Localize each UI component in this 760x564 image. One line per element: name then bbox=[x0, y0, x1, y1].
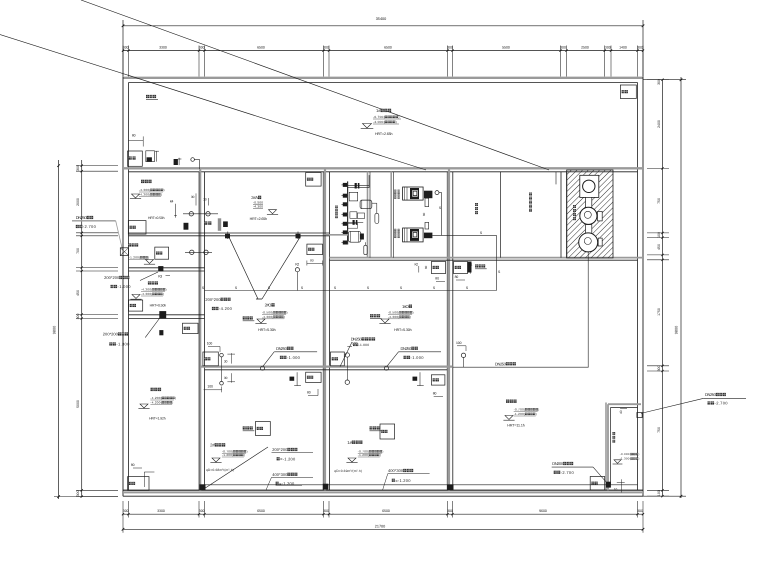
svg-text:-1.300: -1.300 bbox=[116, 342, 130, 347]
svg-text:-4.200: -4.200 bbox=[219, 306, 233, 311]
water level grit chamber bbox=[132, 194, 140, 198]
svg-text:): ) bbox=[380, 453, 381, 457]
sluice below H5 bbox=[159, 330, 163, 335]
svg-text:): ) bbox=[246, 450, 247, 454]
inlet label top left bbox=[146, 95, 149, 98]
svg-text:100: 100 bbox=[352, 342, 358, 346]
svg-text:750: 750 bbox=[657, 198, 661, 204]
svg-text:): ) bbox=[410, 315, 411, 319]
svg-text:-1.300(: -1.300( bbox=[620, 457, 631, 461]
svg-text:80: 80 bbox=[435, 277, 439, 281]
room label disinfection vertical bbox=[612, 432, 615, 435]
svg-text:1400: 1400 bbox=[619, 45, 627, 49]
svg-text:9800: 9800 bbox=[53, 326, 57, 334]
left overall dim extension bbox=[54, 496, 118, 498]
svg-text:300: 300 bbox=[323, 509, 329, 513]
right overall dimension line 9800 bbox=[680, 77, 682, 498]
pump coupling 2 bbox=[425, 222, 429, 229]
svg-text:2#O: 2#O bbox=[265, 303, 273, 308]
svg-text:80: 80 bbox=[422, 212, 426, 216]
svg-text:DN250: DN250 bbox=[76, 215, 88, 220]
valve circle pair metering bbox=[185, 251, 212, 253]
svg-text:450: 450 bbox=[657, 244, 661, 250]
sluice gate on H3 right bbox=[296, 234, 301, 239]
svg-text:6500: 6500 bbox=[384, 45, 392, 49]
svg-text:=-1.200: =-1.200 bbox=[280, 456, 296, 461]
svg-text:300: 300 bbox=[76, 491, 80, 497]
valve manifold vertical pipe 1#A bbox=[347, 181, 349, 244]
svg-text:700: 700 bbox=[76, 248, 80, 254]
svg-text:-4.000(: -4.000( bbox=[373, 120, 386, 124]
svg-text:HRT=2.65h: HRT=2.65h bbox=[250, 217, 268, 221]
svg-text:): ) bbox=[396, 120, 397, 124]
gate valve circle and L pipe bbox=[191, 158, 195, 162]
sluice gate on H3 left bbox=[225, 234, 230, 239]
svg-text:300: 300 bbox=[637, 509, 643, 513]
small gate component bbox=[174, 159, 178, 165]
sluice gate on wall H5 bbox=[159, 311, 166, 319]
svg-text:): ) bbox=[536, 412, 537, 416]
right segmented dimension line bbox=[662, 80, 664, 497]
manifold valve rects middle bbox=[350, 212, 357, 219]
left segmented dimension line bbox=[81, 160, 83, 497]
svg-text:-1.200(: -1.200( bbox=[129, 256, 140, 260]
svg-text:): ) bbox=[398, 115, 399, 119]
svg-text:-4.300(: -4.300( bbox=[141, 292, 152, 296]
svg-text:): ) bbox=[244, 453, 245, 457]
manhole top right bbox=[620, 85, 636, 99]
valve circles on wall V2 at A pool bbox=[183, 213, 218, 215]
svg-text:300: 300 bbox=[560, 45, 566, 49]
drain valve circles through H6 left bbox=[220, 353, 224, 357]
svg-text:-2.700: -2.700 bbox=[561, 470, 575, 475]
pump discharge piping bbox=[435, 191, 439, 195]
svg-text:80: 80 bbox=[131, 463, 135, 467]
wall H7 under pump room and right rooms bbox=[330, 257, 644, 259]
svg-text:-1.000: -1.000 bbox=[411, 355, 425, 360]
svg-text:HRT=5.30h: HRT=5.30h bbox=[394, 328, 412, 332]
room label regulating pool bbox=[506, 400, 509, 403]
svg-text:30: 30 bbox=[224, 360, 228, 364]
svg-text:450: 450 bbox=[76, 290, 80, 296]
drain valve circles through H6 right bbox=[345, 353, 349, 357]
svg-text:2#: 2# bbox=[210, 443, 215, 448]
room label sludge storage vertical bbox=[475, 203, 478, 206]
manhole 2#A bottom left bbox=[204, 221, 207, 224]
svg-text:30: 30 bbox=[191, 195, 195, 199]
svg-text:-1.200(: -1.200( bbox=[222, 453, 233, 457]
room label sludge thickener vertical bbox=[529, 193, 532, 196]
interior trough line above bottom wall bbox=[205, 484, 638, 486]
svg-text:1#: 1# bbox=[347, 440, 352, 445]
top dimension extension line right bbox=[642, 20, 644, 77]
svg-text:21700: 21700 bbox=[375, 524, 386, 528]
gate component 2# clarifier bbox=[290, 377, 295, 381]
svg-text:): ) bbox=[287, 311, 288, 315]
svg-text:100: 100 bbox=[207, 384, 213, 388]
gate component 1# clarifier bbox=[413, 377, 418, 381]
manhole regulating pool bbox=[454, 262, 468, 274]
manhole disinfection bbox=[590, 477, 605, 491]
svg-text:300: 300 bbox=[199, 45, 205, 49]
wall H5 left regulating pool bottom bbox=[129, 314, 205, 316]
svg-text:400*300: 400*300 bbox=[272, 472, 288, 477]
manifold bottom capsule bbox=[365, 242, 367, 245]
svg-text:1#: 1# bbox=[376, 108, 381, 113]
svg-text:-1.000: -1.000 bbox=[359, 343, 370, 347]
water level symbol collecting well bbox=[363, 124, 372, 129]
svg-text:): ) bbox=[175, 396, 176, 400]
svg-text:HRT=5.30h: HRT=5.30h bbox=[258, 328, 276, 332]
svg-text:40: 40 bbox=[619, 410, 623, 414]
svg-text:): ) bbox=[164, 188, 165, 192]
room label vertical pump room bbox=[335, 206, 338, 209]
room label grit chamber bbox=[141, 180, 144, 183]
svg-text:DN200: DN200 bbox=[552, 461, 564, 466]
svg-text:200*200: 200*200 bbox=[272, 447, 288, 452]
svg-text:300: 300 bbox=[123, 45, 129, 49]
svg-text:): ) bbox=[161, 193, 162, 197]
blower unit middle bbox=[586, 197, 592, 207]
svg-text:3300: 3300 bbox=[157, 509, 165, 513]
svg-text:): ) bbox=[538, 408, 539, 412]
svg-text:300: 300 bbox=[447, 509, 453, 513]
room label metering well bbox=[128, 243, 131, 246]
manhole sludge storage bottom bbox=[128, 477, 149, 491]
svg-text:200*200: 200*200 bbox=[103, 332, 119, 337]
pump 2 flange bbox=[424, 233, 432, 239]
svg-text:qD=0.69m³/(m²·h): qD=0.69m³/(m²·h) bbox=[334, 469, 362, 473]
svg-text:K2: K2 bbox=[415, 263, 419, 267]
svg-text:9800: 9800 bbox=[675, 326, 679, 334]
wall H6 under O pools bbox=[200, 366, 453, 368]
svg-text:35400: 35400 bbox=[376, 17, 387, 21]
svg-text:30: 30 bbox=[203, 197, 207, 201]
outlet label and manhole 1#clarifier bbox=[370, 426, 373, 429]
hopper slope line 2# clarifier bbox=[203, 447, 268, 490]
gray pipe from 2#O pool bbox=[326, 234, 348, 236]
svg-text:DN250: DN250 bbox=[276, 346, 288, 351]
svg-text:100: 100 bbox=[456, 341, 462, 345]
svg-text:DN250: DN250 bbox=[495, 361, 507, 366]
svg-text:-4.200(: -4.200( bbox=[150, 401, 161, 405]
diagonal leader line 2 bbox=[0, 35, 426, 171]
svg-text:3300: 3300 bbox=[159, 45, 167, 49]
room label sludge storage bbox=[151, 388, 154, 391]
svg-text:9600: 9600 bbox=[539, 509, 547, 513]
pump unit 1 bbox=[403, 187, 424, 200]
blower room left wall bbox=[560, 172, 562, 258]
svg-text:2400: 2400 bbox=[657, 120, 661, 128]
svg-text:-4.300(: -4.300( bbox=[388, 315, 399, 319]
svg-text:=-1.200: =-1.200 bbox=[395, 478, 411, 483]
svg-text:): ) bbox=[284, 315, 285, 319]
blower unit bottom bbox=[579, 233, 598, 252]
pipe line with S marks bbox=[205, 290, 497, 292]
svg-text:200*200: 200*200 bbox=[205, 297, 221, 302]
svg-text:1750: 1750 bbox=[657, 308, 661, 316]
manifold top horizontal pipes bbox=[348, 184, 370, 186]
svg-text:400*300: 400*300 bbox=[388, 468, 404, 473]
pipe wall sleeve symbol bbox=[120, 248, 128, 256]
hopper V lines 2#O pool bbox=[229, 236, 258, 299]
svg-text:300: 300 bbox=[76, 314, 80, 320]
exterior wall bottom bbox=[123, 489, 643, 491]
svg-text:): ) bbox=[413, 311, 414, 315]
svg-text:): ) bbox=[382, 450, 383, 454]
svg-text:2#A: 2#A bbox=[251, 195, 258, 200]
svg-text:qD=0.68m³/(m²·h): qD=0.68m³/(m²·h) bbox=[206, 468, 234, 472]
manhole 2#O bottom bbox=[203, 352, 218, 366]
manhole 2#A pool bbox=[306, 173, 321, 187]
svg-text:-1.000: -1.000 bbox=[287, 355, 301, 360]
sluice gate on wall H4 bbox=[158, 266, 163, 271]
svg-text:HRT=0.50h: HRT=0.50h bbox=[150, 304, 167, 308]
exterior wall left bbox=[122, 77, 124, 496]
top segmented dimension line bbox=[123, 50, 643, 52]
wall V2 vertical divider bbox=[199, 168, 201, 490]
svg-text:80: 80 bbox=[132, 133, 136, 137]
blower room hatched floor bbox=[567, 170, 613, 258]
svg-text:30: 30 bbox=[224, 376, 228, 380]
air pipe from blowers bbox=[587, 252, 589, 367]
leader end stub bbox=[555, 172, 557, 185]
svg-text:HRT=2.65h: HRT=2.65h bbox=[375, 132, 393, 136]
svg-text:): ) bbox=[638, 457, 639, 461]
svg-text:300: 300 bbox=[657, 366, 661, 372]
outlet label 1#O bbox=[370, 314, 373, 317]
wall H2 full width bbox=[123, 167, 643, 169]
svg-text:300: 300 bbox=[323, 45, 329, 49]
room label blower room vertical bbox=[573, 205, 576, 208]
manifold branch box bbox=[349, 192, 358, 201]
top overall dimension line 27100 bbox=[123, 25, 643, 27]
svg-text:-0.000(: -0.000( bbox=[620, 452, 631, 456]
svg-text:-4.300(: -4.300( bbox=[139, 188, 150, 192]
manhole 1# clarifier top bbox=[431, 375, 445, 385]
svg-text:300: 300 bbox=[605, 45, 611, 49]
svg-text:K4: K4 bbox=[170, 200, 174, 204]
svg-text:2500: 2500 bbox=[581, 45, 589, 49]
outlet label and manhole 2#clarifier bbox=[243, 426, 246, 429]
svg-text:-4.200(: -4.200( bbox=[150, 396, 161, 400]
svg-text:100: 100 bbox=[207, 342, 213, 346]
svg-text:-1.000: -1.000 bbox=[118, 284, 132, 289]
svg-text:80: 80 bbox=[455, 275, 459, 279]
svg-text:=-1.200: =-1.200 bbox=[279, 481, 295, 486]
wall H3 under grit chamber and 2#A pool bbox=[129, 232, 330, 234]
sludge room divider bbox=[499, 172, 501, 258]
svg-text:-4.300(: -4.300( bbox=[139, 193, 150, 197]
vertical pipe joining S line bbox=[496, 235, 498, 290]
valve stem T bbox=[156, 151, 158, 162]
outlet label 2#O bbox=[243, 316, 246, 319]
svg-text:HRT=1.92h: HRT=1.92h bbox=[149, 417, 166, 421]
pump room partition walls bbox=[367, 172, 369, 258]
svg-text:-4.300(: -4.300( bbox=[262, 315, 273, 319]
svg-text:): ) bbox=[166, 288, 167, 292]
svg-text:300: 300 bbox=[447, 45, 453, 49]
pump coupling 1 bbox=[425, 198, 429, 206]
wall H4 metering well bottom bbox=[129, 267, 205, 269]
svg-text:300: 300 bbox=[123, 509, 129, 513]
svg-text:-2.700: -2.700 bbox=[715, 401, 729, 406]
svg-text:DN250: DN250 bbox=[401, 346, 413, 351]
right overall dim extension bbox=[643, 79, 686, 81]
manhole 2# clarifier top bbox=[306, 372, 321, 382]
svg-text:6500: 6500 bbox=[257, 45, 265, 49]
svg-text:): ) bbox=[172, 401, 173, 405]
wall V4 vertical divider bbox=[448, 168, 450, 490]
outlet label regulating pool bbox=[475, 264, 478, 267]
manifold rounded unit bbox=[360, 200, 372, 209]
svg-text:80: 80 bbox=[307, 391, 311, 395]
disinfection room walls bbox=[608, 403, 641, 405]
svg-text:200*200: 200*200 bbox=[104, 275, 120, 280]
svg-text:5000: 5000 bbox=[76, 400, 80, 408]
bottom segmented dimension line bbox=[123, 513, 643, 515]
svg-text:6500: 6500 bbox=[382, 509, 390, 513]
room label left regulating pool bbox=[148, 281, 151, 284]
corner gate marks bottom wall bbox=[200, 484, 206, 490]
svg-text:): ) bbox=[163, 292, 164, 296]
svg-text:300: 300 bbox=[199, 509, 205, 513]
svg-text:750: 750 bbox=[657, 427, 661, 433]
svg-text:): ) bbox=[148, 256, 149, 260]
svg-text:-1.200(: -1.200( bbox=[358, 453, 369, 457]
pump 1 flange bbox=[424, 191, 432, 199]
manhole below H7 left bbox=[431, 262, 445, 274]
svg-text:80: 80 bbox=[310, 258, 314, 262]
exterior wall right bbox=[642, 77, 644, 496]
svg-text:100: 100 bbox=[657, 490, 661, 496]
svg-text:300: 300 bbox=[76, 165, 80, 171]
manhole 2#O upper right bbox=[307, 244, 323, 255]
svg-text:300: 300 bbox=[637, 45, 643, 49]
svg-text:K1: K1 bbox=[469, 262, 473, 266]
inlet gate box 2 bbox=[146, 151, 155, 162]
svg-text:-2.700: -2.700 bbox=[83, 224, 97, 229]
svg-text:6500: 6500 bbox=[257, 509, 265, 513]
svg-text:-0.700(: -0.700( bbox=[514, 408, 525, 412]
svg-text:100: 100 bbox=[657, 232, 661, 238]
top dimension extension line left bbox=[122, 20, 124, 77]
svg-text:-0.700(: -0.700( bbox=[373, 115, 386, 119]
manhole sludge storage top bbox=[183, 323, 199, 333]
svg-text:DN250: DN250 bbox=[705, 392, 717, 397]
blower unit top square bbox=[580, 175, 599, 197]
manifold bottom pump unit bbox=[348, 231, 361, 242]
svg-text:HRT=0.50h: HRT=0.50h bbox=[148, 216, 165, 220]
manhole grit chamber bbox=[128, 221, 146, 235]
svg-text:80: 80 bbox=[433, 392, 437, 396]
exterior wall top bbox=[123, 77, 643, 79]
pump unit 2 bbox=[403, 228, 424, 242]
svg-text:): ) bbox=[638, 452, 639, 456]
svg-text:5500: 5500 bbox=[502, 45, 510, 49]
svg-text:-1.200(: -1.200( bbox=[514, 412, 525, 416]
manhole 1#O bottom bbox=[331, 352, 345, 366]
left overall dimension line 9800 bbox=[58, 160, 60, 499]
svg-text:HRT=11.1h: HRT=11.1h bbox=[507, 424, 525, 428]
manifold lower pipe bbox=[348, 221, 364, 223]
svg-text:-4.300: -4.300 bbox=[253, 205, 263, 209]
svg-text:1#O: 1#O bbox=[402, 304, 410, 309]
inlet manhole box top band bbox=[128, 151, 143, 166]
svg-text:10: 10 bbox=[614, 488, 618, 492]
svg-text:K2: K2 bbox=[295, 263, 299, 267]
diagonal leader line 1 bbox=[81, 0, 549, 170]
svg-text:80: 80 bbox=[424, 265, 428, 269]
svg-text:-4.300(: -4.300( bbox=[141, 288, 152, 292]
wall V3 vertical divider bbox=[324, 168, 326, 490]
bottom overall dimension line 21700 bbox=[123, 528, 643, 530]
svg-text:K3: K3 bbox=[158, 275, 162, 279]
svg-text:2000: 2000 bbox=[76, 198, 80, 206]
